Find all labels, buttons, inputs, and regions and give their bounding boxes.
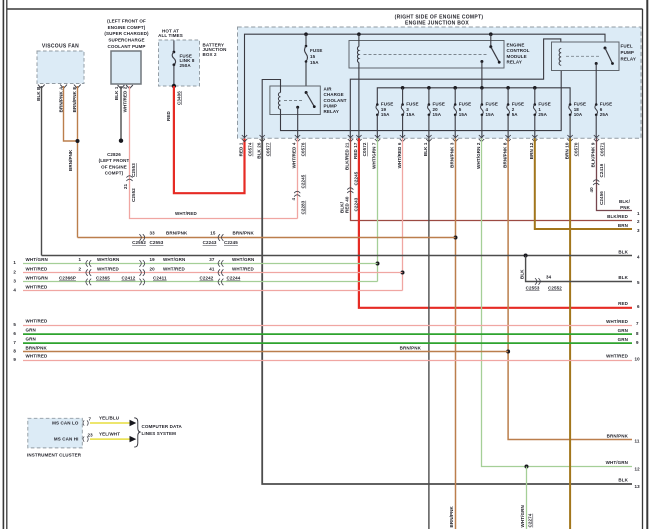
label COMPUTER DATA LINES SYSTEM [142,424,183,436]
right edge label BLK pin 5 [618,275,640,285]
svg-text:19: 19 [150,257,156,262]
fuse 15 [305,34,323,65]
svg-text:(LEFT FRONT OF: (LEFT FRONT OF [107,19,146,24]
svg-text:WHT/GRN: WHT/GRN [163,257,185,262]
svg-text:9: 9 [636,340,639,345]
svg-text:5: 5 [459,107,462,112]
brace computer data lines [134,418,140,447]
row 7 GRN full width [13,337,639,345]
wire ECM contact down to fuse bus [481,62,483,88]
right edge label BRN/PNK pin 11 [607,433,640,443]
connector symbol MS CAN HI [83,437,88,442]
svg-text:WHT/RED 2: WHT/RED 2 [123,86,128,112]
arrowhead YEL/WHT [130,436,137,442]
svg-text:23: 23 [88,433,94,438]
svg-text:YEL/WHT: YEL/WHT [99,432,120,437]
svg-text:15A: 15A [310,60,319,65]
svg-text:7: 7 [636,321,639,326]
fuse 5 (15A) [454,88,471,139]
label C2826 [99,152,130,176]
svg-text:20: 20 [150,266,156,271]
svg-text:WHT/RED: WHT/RED [163,266,185,271]
svg-text:18: 18 [574,107,580,112]
row 9 WHT/RED full width [13,354,640,362]
svg-text:10A: 10A [574,112,583,117]
svg-text:GRN: GRN [618,337,628,342]
wire BLK B vertical from fan down [41,86,43,256]
page frame right [642,9,644,529]
svg-text:40: 40 [589,187,594,193]
wire BRN 10 down to page bottom [569,138,571,529]
fuse link 8 inside battery box [172,41,195,87]
svg-text:C2552: C2552 [548,285,562,290]
svg-text:RED: RED [166,111,171,121]
svg-text:WHT/RED: WHT/RED [26,354,48,359]
svg-text:15A: 15A [433,112,442,117]
svg-text:MS CAN HI: MS CAN HI [54,437,79,442]
svg-text:VISCOUS FAN: VISCOUS FAN [42,44,79,50]
node row2 joins WHT/RED6 [401,271,405,275]
node bus tap ECM switch [489,32,493,36]
svg-text:25A: 25A [600,112,609,117]
svg-text:WHT/RED: WHT/RED [97,266,119,271]
svg-text:BRN/PNK: BRN/PNK [607,433,629,438]
wire BRN/PNK main horizontal from fan splice [78,237,456,239]
node C2826 splice dot [119,139,123,143]
node bus tap fuse15 [304,32,308,36]
svg-text:C2456: C2456 [599,191,604,205]
svg-text:BLK/PNK 9: BLK/PNK 9 [590,142,595,167]
engine control module relay box [349,41,530,69]
row 6 GRN full width [13,328,639,336]
svg-text:WHT/RED: WHT/RED [26,285,48,290]
wire BLK 26 down and right to edge pin 13 [262,138,632,484]
svg-text:6: 6 [13,331,16,336]
supercharge coolant pump box [104,19,149,89]
junction box exit pin 17 RED [353,135,367,159]
svg-text:(RIGHT SIDE OF ENGINE COMPT): (RIGHT SIDE OF ENGINE COMPT) [395,14,484,20]
svg-text:COOLANT PUMP: COOLANT PUMP [108,44,146,49]
svg-text:41: 41 [209,266,215,271]
svg-text:GRN: GRN [26,337,36,342]
svg-text:CHARGE: CHARGE [324,92,344,97]
wire ECM coil bottom down to RED exit 17 [358,63,360,139]
wire WHT/GRN 2 down then right to edge pin 12 [482,138,633,466]
svg-text:GRN: GRN [618,328,628,333]
connector C2552/C2553 on BRN/PNK horizontal [139,234,144,241]
node bus tap ECM coil [357,32,361,36]
svg-text:1: 1 [13,260,16,265]
junction box exit pin 1 RED [239,135,253,156]
connector symbol MS CAN LO [83,420,88,425]
svg-text:CONTROL: CONTROL [507,48,530,53]
junction box exit pin 8 BRN/PNK [502,135,511,168]
wire BLK/PNK 9 down then right to edge pin 1 [597,138,633,210]
connector C2553/C2552 on BLK5 line [535,278,540,285]
svg-text:34: 34 [546,275,552,280]
svg-text:MODULE: MODULE [507,54,527,59]
svg-text:25A: 25A [538,112,547,117]
svg-text:5: 5 [637,280,640,285]
svg-text:C2552: C2552 [131,188,136,202]
svg-text:BRN/PNK: BRN/PNK [233,231,255,236]
svg-text:4: 4 [291,198,296,201]
coil of fuel pump relay [559,49,561,66]
dashed actuation link ECM relay [364,54,489,56]
svg-text:8: 8 [13,349,16,354]
svg-text:RED: RED [618,301,628,306]
svg-text:YEL/BLU: YEL/BLU [99,416,119,421]
junction box exit pin 26 BLK [256,135,270,159]
svg-text:(SUPER CHARGED): (SUPER CHARGED) [104,31,149,36]
row 2 WHT/RED [13,266,402,276]
svg-text:BLK 26: BLK 26 [256,142,261,159]
svg-text:15: 15 [310,54,316,59]
svg-text:4: 4 [13,288,16,293]
node C3406 dot at battery box bottom [172,84,176,88]
svg-text:C2244: C2244 [227,276,241,281]
svg-text:250A: 250A [180,63,192,68]
svg-text:5A: 5A [512,112,519,117]
svg-text:C2411: C2411 [153,276,167,281]
svg-text:15A: 15A [406,112,415,117]
svg-text:COOLANT: COOLANT [324,98,347,103]
svg-text:PNK: PNK [620,205,630,210]
svg-text:PUMP: PUMP [324,104,337,109]
svg-text:GRN: GRN [26,328,36,333]
fuse 20 (15A) [428,88,445,139]
coil of ECM relay [357,47,358,63]
svg-text:WHT/GRN: WHT/GRN [97,257,119,262]
svg-text:C2416: C2416 [599,163,604,177]
row 3 WHT/GRN [13,276,377,286]
svg-text:COMPT): COMPT) [105,171,124,176]
switch of fuel pump relay [595,47,614,66]
wire internal bus from pin1 feed [245,34,606,138]
svg-text:WHT/RED: WHT/RED [26,266,48,271]
svg-text:9: 9 [13,357,16,362]
svg-text:C0576: C0576 [300,142,305,156]
svg-text:11: 11 [635,439,640,444]
fuse 6 (25A) [595,102,612,139]
dashed actuation link air relay [284,100,302,102]
wire WHT/GRN C2274 drop to page bottom [526,467,528,529]
svg-text:WHT/RED: WHT/RED [606,354,628,359]
svg-text:WHT/GRN: WHT/GRN [606,460,628,465]
right edge label WHT/GRN pin 12 [606,460,640,472]
junction box exit pin 4 WHT/RED [291,135,305,168]
wire air relay coil bottom to fuel relay coil bottom [281,65,562,130]
wire ECM coil top to bus [358,34,360,46]
svg-text:FUSE: FUSE [459,102,471,107]
right edge label BLK/RED pin 2 [607,214,640,224]
svg-text:2: 2 [13,269,16,274]
svg-text:4: 4 [486,107,489,112]
svg-text:FUSE: FUSE [433,102,445,107]
svg-text:AIR: AIR [324,86,333,91]
junction box exit pin 12 BRN [529,135,538,159]
svg-text:BLK 1: BLK 1 [114,86,119,100]
svg-text:BRN: BRN [618,223,628,228]
svg-text:C2245: C2245 [353,171,358,185]
svg-text:C2553: C2553 [526,285,540,290]
svg-text:RELAY: RELAY [621,57,636,62]
svg-text:5: 5 [13,322,16,327]
junction box exit pin 6 WHT/RED [397,135,405,168]
svg-text:2: 2 [79,266,82,271]
svg-text:BRN/PNK 8: BRN/PNK 8 [502,142,507,168]
svg-text:WHT/RED 6: WHT/RED 6 [397,142,402,168]
svg-text:C2243: C2243 [203,240,217,245]
svg-text:WHT/GRN: WHT/GRN [26,276,48,281]
right edge label RED pin 6 [618,301,640,309]
node fuse bus taps [401,86,537,90]
svg-text:BLK: BLK [618,249,628,254]
svg-text:C2245: C2245 [224,240,238,245]
wire BRN/PNK 3 down to page bottom [455,138,457,529]
svg-text:8: 8 [636,331,639,336]
fuse 3 (15A) [401,88,418,139]
svg-text:BLK 1: BLK 1 [423,142,428,156]
svg-text:BRN/PNK: BRN/PNK [68,149,73,171]
svg-text:ENGINE: ENGINE [507,42,525,47]
svg-text:33: 33 [150,231,156,236]
svg-text:BRN/PNK A: BRN/PNK A [59,86,64,113]
row 8 BRN/PNK to node [13,345,508,353]
svg-text:(LEFT FRONT: (LEFT FRONT [99,158,130,163]
svg-text:MS CAN LO: MS CAN LO [52,421,79,426]
svg-text:C2274: C2274 [528,513,533,527]
connector C2245/C2283 symbol on WHT/RED wire [294,191,300,196]
connector C2553/C2552 symbol on pump wire [126,176,132,181]
svg-text:WHT/GRN 2: WHT/GRN 2 [476,142,481,169]
junction box exit pin 1 BLK [423,135,432,156]
svg-text:C2365: C2365 [96,276,110,281]
svg-text:C2366P: C2366P [59,276,76,281]
svg-text:C2826: C2826 [107,152,121,157]
svg-text:10: 10 [635,357,641,362]
right edge label BLK pin 4 [618,249,640,259]
svg-text:37: 37 [209,257,215,262]
row 5 WHT/RED full width [13,319,639,327]
wire BLK branch down then right to edge pin 5 [526,256,632,282]
svg-text:1: 1 [79,257,82,262]
svg-text:FUSE: FUSE [512,102,524,107]
fuse 1 (25A) [533,88,550,139]
switch of ECM relay [480,34,500,63]
wire WHT/GRN 7 down joining row1 and row3 [377,138,379,281]
svg-text:BLK/: BLK/ [619,199,631,204]
svg-text:BRN 12: BRN 12 [529,142,534,159]
junction box exit pin 7 WHT/GRN [372,135,381,169]
svg-text:WHT/RED: WHT/RED [232,266,254,271]
svg-text:RED 40: RED 40 [344,196,349,213]
svg-text:FUEL: FUEL [621,44,633,49]
viscous fan box [37,44,84,89]
fuse 2 (5A) [507,88,524,139]
svg-text:FUSE: FUSE [310,48,322,53]
svg-text:BRN/PNK: BRN/PNK [26,345,48,350]
junction box exit pin 2 WHT/GRN [476,135,484,169]
svg-text:WHT/GRN: WHT/GRN [520,505,525,527]
page outer border right [646,0,648,529]
wire BRN/PNK E from fan down to splice [77,86,79,238]
svg-text:WHT/RED: WHT/RED [26,319,48,324]
svg-text:7: 7 [13,340,16,345]
svg-text:3: 3 [637,228,640,233]
svg-text:BLK: BLK [519,269,524,279]
svg-text:3: 3 [406,107,409,112]
node BRN/PNK horizontal joins exit3 wire [454,236,458,240]
svg-text:BRN/PNK: BRN/PNK [400,345,422,350]
wire BRN/PNK A from fan [64,86,78,141]
switch of air charge relay [296,91,315,109]
svg-text:6: 6 [637,304,640,309]
row 4 WHT/RED [13,285,402,293]
row 1 WHT/GRN [13,257,377,267]
svg-text:FUSE: FUSE [600,102,612,107]
svg-text:BRN/PNK: BRN/PNK [166,231,188,236]
svg-text:C3406: C3406 [177,91,182,105]
wire BRN 12 down then right to edge pin 3 [535,138,632,229]
connector C2245/C2243 symbol on BLK/RED wire [347,188,353,193]
svg-text:3: 3 [13,279,16,284]
svg-text:15: 15 [210,231,216,236]
coil of air charge relay [278,93,280,110]
svg-text:C0577: C0577 [265,142,270,156]
svg-text:2: 2 [512,107,515,112]
svg-text:C0570: C0570 [573,142,578,156]
svg-text:WHT/RED 4: WHT/RED 4 [291,142,296,168]
svg-text:21: 21 [123,183,128,189]
svg-text:SUPERCHARGE: SUPERCHARGE [108,38,144,43]
svg-text:6: 6 [600,107,603,112]
wire YEL/WHT [90,438,130,440]
junction box exit pin 3 BRN/PNK [449,135,458,168]
svg-text:BLK/RED: BLK/RED [607,214,628,219]
svg-text:2: 2 [637,219,640,224]
svg-text:RED 1: RED 1 [239,142,244,156]
wire air relay contact down to exit 4 [297,107,299,138]
svg-text:ALL TIMES: ALL TIMES [158,33,183,38]
air charge coolant pump relay box [270,86,347,115]
svg-text:WHT/GRN: WHT/GRN [26,257,48,262]
node row1 joins WHT/GRN7 [376,262,380,266]
svg-text:C2552: C2552 [132,240,146,245]
svg-text:C2243: C2243 [353,197,358,211]
wire BLK 4 from fan B wire to right edge [42,255,633,257]
svg-text:FUSE: FUSE [538,102,550,107]
svg-text:20: 20 [433,107,439,112]
wire RED battery to junction box pin 1 [174,86,245,193]
svg-text:FUSE: FUSE [381,102,393,107]
svg-text:C2283: C2283 [301,200,306,214]
svg-text:WHT/GRN 7: WHT/GRN 7 [372,142,377,169]
svg-text:WHT/GRN: WHT/GRN [232,257,254,262]
svg-text:4: 4 [637,254,640,259]
svg-text:12: 12 [635,466,641,471]
svg-text:PUMP: PUMP [621,50,634,55]
fuse 4 (15A) [481,88,498,139]
svg-text:FUSE: FUSE [406,102,418,107]
svg-text:15A: 15A [381,112,390,117]
svg-text:BRN/PNK 3: BRN/PNK 3 [449,142,454,168]
right edge label BLK/PNK pin 1 [619,199,640,216]
svg-text:BRN/PNK E: BRN/PNK E [72,87,77,113]
svg-text:ENGINE COMPT): ENGINE COMPT) [108,25,146,30]
wire WHT/RED 6 down joining row2 and row4 [402,138,404,290]
connector C2416/C2456 symbol on BLK/PNK wire [593,180,599,185]
svg-text:15A: 15A [459,112,468,117]
svg-text:OF ENGINE: OF ENGINE [101,164,127,169]
wire RED 17 down then right to edge pin 6 [359,138,632,307]
svg-text:C2553: C2553 [131,163,136,177]
battery junction box 2 [158,28,226,86]
svg-text:C2245: C2245 [301,174,306,188]
svg-text:C0571: C0571 [599,142,604,156]
svg-text:1: 1 [538,107,541,112]
svg-text:7: 7 [89,417,92,422]
wire YEL/BLU [90,422,130,424]
page frame left [6,0,8,529]
page frame top [7,8,643,10]
fuel pump relay box [552,42,636,71]
svg-text:13: 13 [635,484,641,489]
wire BLK/RED exit21 riser to fuel relay feed [350,39,561,138]
svg-text:WHT/RED: WHT/RED [606,319,628,324]
svg-text:C2242: C2242 [200,276,214,281]
svg-text:WHT/RED: WHT/RED [175,211,197,216]
wire fuse15 to air relay pivot [305,62,307,93]
svg-text:FUSE: FUSE [574,102,586,107]
svg-text:BOX 2: BOX 2 [203,52,217,57]
wire air relay coil top to BLK exit 26 [262,80,280,139]
wire pump BLK down to C2826 splice [120,86,122,141]
wire fuel relay contact down to fuse 6 [595,64,597,105]
right edge label BLK pin 13 [618,478,640,490]
fuse 19 (15A) [376,102,393,139]
svg-text:COMPUTER DATA: COMPUTER DATA [142,424,183,429]
node row8 BRN/PNK joins [506,350,510,354]
svg-text:19: 19 [381,107,387,112]
right edge label BRN pin 3 [618,223,640,233]
svg-text:BRN 10: BRN 10 [564,142,569,159]
dashed actuation link fuel relay [566,55,600,57]
wire BLK 1 down to page bottom [428,138,430,529]
junction box exit pin 9 BLK/PNK [590,135,604,167]
fuse 18 (10A) [569,102,586,139]
node splice of fan BRN/PNK wires [76,139,80,143]
junction box exit pin 21 BLK/RED [345,135,354,170]
svg-text:FUSE: FUSE [486,102,498,107]
svg-text:RELAY: RELAY [507,60,522,65]
wire BLK/RED 21/40 down to right edge pin 2 [351,138,633,220]
svg-text:BRN/PNK: BRN/PNK [449,506,454,528]
svg-text:C0574: C0574 [248,142,253,156]
svg-text:C0572: C0572 [362,142,367,156]
svg-text:BLK B: BLK B [36,86,41,101]
svg-text:RELAY: RELAY [324,109,339,114]
node WHT/GRN C2274 branch [525,465,529,469]
wire WHT/RED 4 down through C2283 then left [297,138,299,218]
svg-text:INSTRUMENT CLUSTER: INSTRUMENT CLUSTER [27,452,82,457]
svg-text:BLK: BLK [618,478,628,483]
connector C2243/C2245 on BRN/PNK horizontal [218,234,223,241]
instrument cluster box [27,418,82,457]
svg-text:BLK: BLK [618,275,628,280]
wire BRN/PNK 8 down then right to edge pin 11 [508,138,632,439]
wire pump WHT/RED down through C2553/C2552 to horizontal [130,86,298,219]
